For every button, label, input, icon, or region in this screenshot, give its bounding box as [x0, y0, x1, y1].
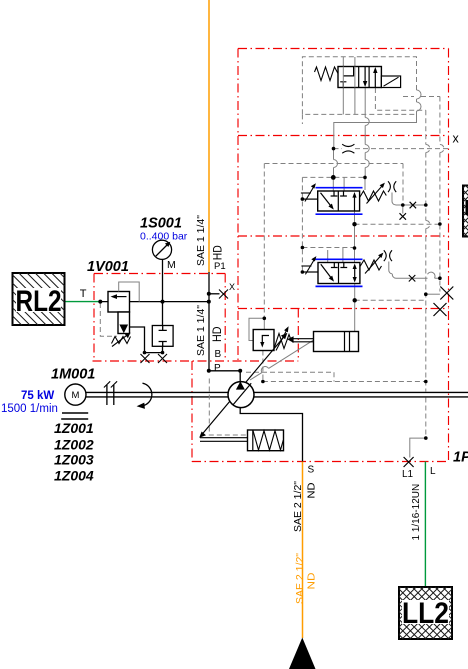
valve2 double arrow — [354, 267, 356, 280]
off-page connector triangle (suction) — [289, 638, 316, 669]
1V001 poppet stage — [118, 312, 130, 334]
svg-text:1M001: 1M001 — [51, 367, 95, 383]
wire valve1 top connections — [333, 177, 365, 191]
enclosure divider y=236 — [238, 235, 449, 237]
test point X (drain 2) — [158, 354, 167, 363]
test point x on rail y=205 — [410, 202, 417, 209]
svg-text:1V001: 1V001 — [87, 259, 129, 275]
svg-text:ND: ND — [306, 572, 318, 589]
node HD junction — [207, 300, 211, 304]
node case drain right — [424, 380, 428, 384]
svg-text:L: L — [430, 466, 436, 477]
valve2 blocked ports — [331, 263, 347, 268]
wire valve2 spring branch drop — [389, 262, 393, 275]
wire pump swashplate frame dashed — [209, 379, 246, 436]
plug block (shut-off cartridge) — [152, 326, 173, 347]
wire compensator bottom port drop — [262, 351, 264, 382]
shaft coupling — [104, 381, 117, 405]
node rail278 — [438, 276, 442, 280]
wire pilot valve bottom port 2 — [354, 88, 356, 115]
1V001 pilot line — [119, 282, 140, 302]
wire dashed stub y=96.5 left — [403, 96, 414, 98]
node L branch — [424, 436, 428, 440]
port box at right edge (clipped, cross-hatched) — [463, 186, 468, 237]
enclosure 1V001 top edge — [94, 273, 225, 275]
svg-text:B: B — [215, 349, 222, 360]
wire pilot valve top port 1 — [342, 57, 344, 67]
svg-text:RL2: RL2 — [16, 285, 62, 318]
svg-text:SAE 2 1/2": SAE 2 1/2" — [292, 481, 304, 532]
wire relief drain to test points — [130, 327, 145, 353]
node P junction pump — [238, 369, 242, 373]
svg-text:1S001: 1S001 — [140, 216, 182, 232]
wire port X branch — [209, 293, 220, 295]
bias cylinder with spring — [200, 430, 284, 451]
test point x on rail y=278 — [409, 275, 416, 282]
node valve1 solenoid — [301, 197, 305, 201]
node plugged link — [424, 292, 428, 296]
port box RL2 (hatched) — [13, 273, 65, 325]
node T junction — [98, 300, 102, 304]
node x-line junction — [438, 222, 442, 226]
enclosure 1V001 bottom / compensator bottom edge — [93, 360, 299, 362]
wire valve2 pilot to stroking cylinder — [354, 300, 356, 331]
node valve1 top left — [331, 175, 336, 180]
pressure gauge 1S001 — [152, 240, 171, 259]
svg-text:1Z002: 1Z002 — [54, 437, 94, 453]
proportional valve 2 (lower) — [301, 250, 392, 286]
wire dashed stub y=96.5 right — [421, 96, 440, 98]
wire plugged port link — [426, 293, 440, 295]
test point X (port X top) — [219, 290, 228, 299]
enclosure 1V001 right edge — [224, 274, 226, 362]
node valve1 top right — [363, 176, 367, 180]
svg-text:LL2: LL2 — [402, 597, 449, 630]
valve1 proportional solenoid — [302, 198, 317, 200]
proportional valve 1 (upper) — [301, 181, 396, 214]
wire pilot valve mid port down with crossing hops — [365, 88, 369, 177]
stroking cylinder — [287, 332, 358, 352]
wire valve2 top connections — [328, 248, 355, 263]
compensator spring — [275, 334, 292, 349]
node valve1 bottom — [352, 222, 356, 226]
svg-text:P: P — [214, 363, 221, 374]
prop marking lines (blue) valve2 — [316, 259, 363, 286]
1V001 drain dashed — [100, 303, 117, 336]
wire hose drop from pilot box right edge — [334, 90, 422, 177]
node compensator pilot — [263, 317, 267, 321]
wire valve1 bottom connection — [354, 211, 356, 248]
shaft line lower — [86, 396, 468, 398]
node valve2 top left rail — [301, 246, 305, 250]
wire valve2 branch rail y=278.2 with hose hop — [392, 272, 440, 278]
wire pilot valve port lines crossing body — [343, 67, 355, 88]
pilot valve spring — [315, 67, 339, 81]
node orifice branch — [332, 147, 336, 151]
valve1 pilot orifice — [388, 181, 396, 192]
wire pilot rail y=163.5 — [265, 163, 404, 165]
svg-text:1Z003: 1Z003 — [54, 452, 94, 468]
wire P load-sense dashed y=372.3 — [246, 371, 334, 373]
shaft line upper — [86, 391, 468, 393]
plugged port X (lower, on red line) — [434, 303, 447, 316]
svg-text:1500 1/min: 1500 1/min — [1, 403, 58, 415]
wire L1 branch — [410, 438, 426, 457]
pilot enclosure dashed box around pilot valve — [302, 57, 416, 115]
node drain junction 1 — [143, 351, 147, 355]
enclosure valve-block top edge — [238, 48, 449, 50]
wire pilot valve bottom port 1 — [342, 88, 344, 115]
relief valve 1V001 body — [100, 282, 139, 347]
wire valve1 spring branch: orifice drop and hose to rail y=205 — [392, 193, 426, 206]
plugged port X (upper) — [440, 287, 453, 300]
wire drop to valve1 pressure port rail — [402, 164, 404, 206]
variable displacement pump 1P — [228, 381, 254, 407]
svg-text:SAE 1 1/4": SAE 1 1/4" — [195, 215, 207, 266]
svg-text:SAE 2 1/2": SAE 2 1/2" — [294, 553, 306, 604]
enclosure right edge — [448, 49, 450, 462]
wire valve1 left pilot dashed vertical — [301, 114, 303, 272]
svg-text:S: S — [308, 465, 315, 476]
test point x below dot x=402.8 — [400, 213, 407, 220]
pilot-operated directional valve (pump control) — [315, 67, 401, 88]
wire valve2 bottom rail y=300.3 — [355, 299, 426, 301]
orifice (throttle) symbol — [342, 144, 354, 153]
wire SAE riser (black part) — [208, 272, 210, 371]
pilot valve left position blocked paths — [340, 67, 353, 88]
wire pilot valve right port to x-net — [375, 88, 425, 110]
wire L leakage to LL2 (green) — [424, 462, 426, 588]
node case drain left — [261, 380, 265, 384]
svg-text:ND: ND — [306, 482, 318, 498]
node rail205 b — [424, 203, 428, 207]
wire pilot valve top port 2 — [354, 57, 356, 67]
valve2 pilot orifice — [384, 250, 392, 261]
wire S suction (orange) — [302, 462, 304, 639]
valve1 up arrow — [354, 196, 356, 211]
pilot valve solenoid — [381, 76, 400, 88]
wire L-rail x=425.8 with hose hops — [426, 110, 430, 438]
wire compensator pilot loop — [249, 318, 264, 340]
valve1 diagonal flow arrow — [321, 193, 332, 207]
enclosure divider y=308.5 — [238, 308, 449, 310]
wire pump outlet to S port — [240, 407, 302, 461]
pump displacement arrow (double headed) — [199, 333, 287, 438]
svg-text:75 kW: 75 kW — [21, 390, 54, 402]
wire dashed rail y=177.4 valve1 — [302, 176, 365, 178]
pressure compensator valve — [253, 326, 291, 350]
node valve2 top — [353, 246, 357, 250]
svg-text:1P0: 1P0 — [453, 450, 468, 466]
prop marking lines (blue) valve1 — [316, 188, 363, 215]
wire P to pump — [209, 371, 240, 382]
enclosure pump unit left edge — [191, 361, 193, 462]
svg-text:SAE 1 1/4": SAE 1 1/4" — [195, 305, 207, 356]
rotation direction arrow — [137, 383, 152, 409]
wire P1 HD supply (orange) — [208, 0, 210, 272]
svg-text:1 1/16-12UN: 1 1/16-12UN — [411, 484, 422, 541]
node X branch junction — [207, 292, 211, 296]
wire plug block to drain — [145, 346, 163, 352]
svg-text:M: M — [167, 259, 176, 271]
pilot valve right arrow up — [374, 72, 376, 88]
valve2 proportional solenoid — [302, 271, 318, 273]
enclosure compensator right edge — [297, 309, 299, 362]
wire case drain rail y=381.5 — [263, 381, 426, 383]
enclosure pump unit 1P bottom edge — [192, 461, 449, 463]
svg-text:T: T — [80, 288, 87, 300]
wire rail y=205 crossing dot to x — [402, 205, 404, 214]
enclosure valve-block left edge — [237, 49, 239, 362]
wire orifice line y=148.6 — [334, 148, 449, 150]
svg-text:1Z001: 1Z001 — [54, 420, 94, 436]
wire valve2 top rail y=247.5 — [302, 247, 354, 249]
node P junction left — [207, 369, 211, 373]
wire HP main line RL2 junction to SAE riser — [100, 301, 209, 303]
1V001 flow arrow — [114, 296, 127, 298]
enclosure divider y=135.5 — [238, 135, 449, 137]
wire pump mechanical link with hop — [250, 340, 314, 380]
node drain junction 2 — [161, 351, 165, 355]
svg-text:HD: HD — [210, 326, 224, 342]
wire load-sense jog — [333, 372, 335, 381]
drive shaft double line — [86, 392, 468, 397]
svg-text:L1: L1 — [402, 469, 414, 480]
electric motor 1M001 — [61, 384, 88, 419]
enclosure 1V001 left edge — [93, 274, 95, 362]
valve2 adjustable spring — [360, 260, 382, 270]
port box LL2 (cross-hatched) — [399, 587, 452, 639]
motor base lines — [61, 413, 88, 419]
svg-text:P1: P1 — [214, 261, 226, 272]
test point X (drain 1) — [141, 354, 150, 363]
bias cylinder rod — [200, 438, 248, 442]
pilot valve centre arrow down — [364, 67, 366, 83]
wire T return to RL2 (green) — [65, 301, 101, 303]
svg-text:1Z004: 1Z004 — [54, 467, 94, 483]
1V001 adjustable spring — [112, 337, 131, 344]
node valve2 solenoid — [301, 270, 305, 274]
node rail205 a — [401, 203, 405, 207]
svg-text:HD: HD — [211, 245, 225, 260]
valve2 diagonal flow arrow — [321, 264, 332, 279]
valve1 adjustable spring — [360, 191, 387, 201]
wire compensator pilot dashed riser — [263, 164, 265, 319]
valve1 blocked ports — [331, 191, 347, 196]
wire gauge 1S001 drop — [162, 259, 164, 325]
wire valve2 bottom connection — [354, 284, 356, 301]
svg-text:x: x — [453, 132, 460, 146]
svg-text:M: M — [71, 390, 79, 401]
port L1 test connection X — [404, 457, 414, 467]
wire x-line vertical x=439.9 with hose hop — [440, 97, 444, 292]
node gauge junction — [161, 300, 165, 304]
wire valve1 bottom rail y=224.2 — [355, 223, 440, 225]
stroking cylinder rod — [292, 339, 314, 342]
node valve2 bottom — [353, 298, 357, 302]
svg-text:0..400 bar: 0..400 bar — [140, 231, 188, 243]
svg-text:X: X — [229, 282, 235, 292]
